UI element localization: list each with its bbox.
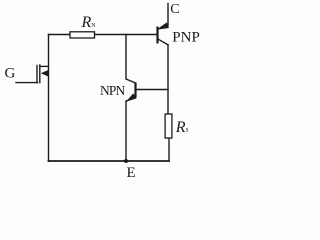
svg-text:C: C <box>170 2 179 17</box>
svg-text:s: s <box>186 126 189 134</box>
svg-text:E: E <box>127 165 136 181</box>
svg-text:N: N <box>91 23 96 29</box>
svg-text:R: R <box>175 119 186 136</box>
svg-text:G: G <box>5 66 16 82</box>
svg-text:NPN: NPN <box>100 83 125 98</box>
svg-text:R: R <box>81 14 92 31</box>
svg-text:PNP: PNP <box>172 30 200 46</box>
